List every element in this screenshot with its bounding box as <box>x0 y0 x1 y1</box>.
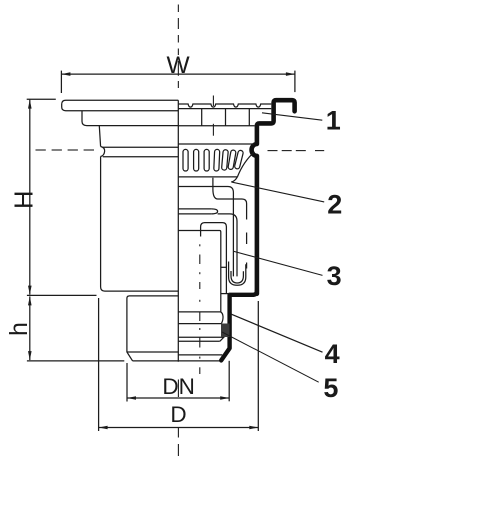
inner pipe upper <box>213 178 247 220</box>
spigot bottom inner line right <box>178 354 222 356</box>
spigot thread line at gasket bottom <box>178 337 224 341</box>
funnel lower line <box>178 187 233 277</box>
dip tube lower bend <box>218 214 237 277</box>
centerline horizontal right <box>268 150 325 152</box>
leader 4 <box>231 314 322 352</box>
centerline vertical bottom <box>177 380 179 457</box>
slots slanted <box>214 149 244 171</box>
frame thick profile (hook + wall) <box>252 100 295 294</box>
frame thick lower jog <box>221 291 257 361</box>
svg-text:W: W <box>166 52 190 79</box>
dimension H <box>27 99 97 295</box>
hidden pipe dashes <box>246 233 248 245</box>
dimension D <box>99 298 259 431</box>
trap top and right wall <box>205 223 227 294</box>
spigot bottom inner line left <box>127 351 178 353</box>
flange top (left half view) <box>62 100 179 110</box>
inner wall vertical <box>178 231 221 312</box>
dimension W <box>61 71 295 93</box>
grate dividers <box>201 109 203 126</box>
leader 3 <box>234 251 323 275</box>
spigot thread line upper <box>178 311 220 313</box>
U-cup outer <box>229 262 246 286</box>
flange second tier <box>82 111 178 126</box>
spigot bottom line <box>133 360 220 362</box>
dimension DN <box>127 361 229 402</box>
dimension h <box>27 296 124 361</box>
gasket <box>221 324 230 338</box>
trap step <box>221 266 227 268</box>
slot band top line <box>178 143 254 145</box>
funnel top line <box>178 176 237 178</box>
spigot shoulder line <box>129 295 178 297</box>
leader 2 <box>232 182 325 202</box>
slots vertical (4) <box>183 149 188 171</box>
svg-text:H: H <box>11 191 39 209</box>
spigot thread line at gasket top <box>178 323 221 325</box>
spigot shoulder corner <box>127 296 129 299</box>
svg-text:h: h <box>5 322 33 336</box>
svg-text:4: 4 <box>325 339 340 369</box>
trap centerline dash-dot <box>199 244 201 374</box>
o-ring groove lines left half <box>103 146 179 148</box>
svg-text:2: 2 <box>327 189 342 219</box>
dip tube cap pair <box>178 208 211 210</box>
centerline horizontal left <box>36 149 95 151</box>
grate bottom <box>178 125 254 127</box>
grate centermark <box>212 96 214 107</box>
body neck wall upper left <box>99 126 100 147</box>
centerline vertical top <box>177 5 179 89</box>
spigot thread S-curve edge <box>221 312 223 324</box>
step to jog <box>221 293 230 295</box>
leader 5 <box>222 332 319 382</box>
svg-text:5: 5 <box>323 373 338 403</box>
grate top surface with slot notches <box>178 104 271 107</box>
spigot thread line lower <box>178 340 220 342</box>
funnel top curve <box>237 152 254 177</box>
o-ring groove notch left <box>101 147 105 157</box>
body wall left lower <box>101 157 179 292</box>
spigot left wall <box>127 299 133 361</box>
svg-text:3: 3 <box>327 261 342 291</box>
U-cup inner <box>231 271 243 283</box>
section boundary vertical center <box>177 100 179 361</box>
funnel lip <box>231 177 237 182</box>
svg-text:DN: DN <box>162 374 195 399</box>
svg-text:1: 1 <box>326 105 341 135</box>
svg-text:D: D <box>170 402 186 427</box>
leader 1 <box>262 113 322 120</box>
